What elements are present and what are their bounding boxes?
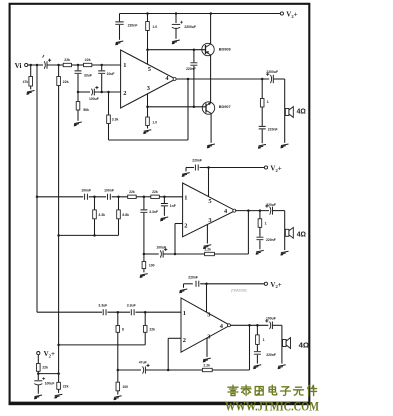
terminal V2+ ch2 — [264, 166, 267, 169]
svg-text:220nF: 220nF — [266, 238, 276, 242]
svg-text:3.3nF: 3.3nF — [149, 210, 158, 214]
ground speaker ch3 — [278, 365, 286, 369]
op-amp U1 TDA2030 — [121, 50, 177, 108]
svg-text:1.0: 1.0 — [152, 120, 157, 124]
resistor 22k bias lower — [57, 382, 61, 389]
junction pin5 ch2 — [207, 166, 210, 169]
junction — [100, 91, 103, 94]
svg-text:3.3k: 3.3k — [112, 118, 119, 122]
svg-text:220nF: 220nF — [128, 24, 138, 28]
wire — [117, 332, 119, 370]
svg-text:BD908: BD908 — [219, 47, 231, 51]
wire to V2+ ch3 — [200, 283, 264, 285]
wire — [261, 79, 263, 99]
svg-text:100uF: 100uF — [156, 245, 166, 249]
svg-text:22k: 22k — [129, 190, 135, 194]
resistor 22k bias top — [57, 77, 61, 86]
resistor 2.2k ch3 — [202, 368, 212, 371]
junction bias divider — [57, 64, 60, 67]
resistor 1 zobel ch1 — [260, 99, 264, 108]
svg-text:1nF: 1nF — [170, 204, 176, 208]
resistor 22k ch2 a — [128, 195, 137, 198]
wire bias rail B — [58, 86, 60, 383]
resistor 3.3k feedback — [107, 115, 111, 124]
wire — [72, 64, 84, 66]
ground 100 ch2 — [140, 274, 148, 278]
wire — [118, 197, 120, 210]
wire pin2 line — [78, 91, 90, 93]
wire pin3 stub — [147, 94, 149, 117]
svg-text:V2+: V2+ — [286, 11, 297, 19]
junction input-rail — [36, 64, 39, 67]
junction bias node — [37, 372, 40, 375]
svg-text:220nF: 220nF — [266, 353, 276, 357]
svg-text:1: 1 — [265, 222, 267, 226]
wire — [193, 66, 195, 107]
wire — [212, 369, 249, 371]
speaker LS2 — [285, 227, 293, 238]
wire — [259, 227, 261, 236]
resistor 1 zobel ch2 — [258, 219, 262, 228]
wire base BD908 — [148, 49, 206, 51]
svg-text:4Ω: 4Ω — [297, 231, 307, 238]
resistor R 22k series 2 — [84, 63, 92, 66]
junction — [117, 369, 120, 372]
ground rail cap ch3 — [179, 289, 187, 293]
wire — [274, 78, 285, 80]
wire pin2 stub ch3 — [168, 337, 181, 339]
ground pin3 — [143, 130, 151, 134]
wire — [143, 254, 145, 262]
wire ch3 input — [37, 311, 102, 313]
capacitor 220nF rail ch2 — [195, 165, 198, 171]
svg-text:BD907: BD907 — [219, 105, 231, 109]
wire output ch3 — [230, 324, 268, 326]
capacitor 3.3uF ch3 a — [103, 309, 106, 315]
wire — [117, 370, 119, 382]
junction rail B tap ch2 — [57, 234, 60, 237]
junction zobel ch3 — [256, 324, 259, 327]
wire pin3 stub ch2 — [206, 225, 208, 244]
svg-text:3.3k: 3.3k — [98, 213, 105, 217]
svg-text:4Ω: 4Ω — [297, 109, 307, 116]
wire — [94, 219, 96, 236]
wire to pin1 ch2 — [159, 196, 182, 198]
capacitor 100uF feedback ch2 — [160, 250, 161, 257]
junction pin5 ch3 — [205, 283, 208, 286]
wire — [77, 110, 79, 121]
wire — [259, 240, 261, 249]
input terminal Vi — [25, 63, 28, 66]
capacitor 220nF zobel ch2 — [256, 237, 263, 240]
svg-text:WWW.JTMIC.COM: WWW.JTMIC.COM — [225, 400, 319, 414]
ground speaker ch2 — [281, 251, 289, 255]
capacitor 220nF rail ch3 — [196, 281, 199, 287]
svg-text:1.0: 1.0 — [152, 25, 157, 29]
ground 1nF — [160, 217, 168, 221]
resistor 22k ch2 b — [151, 195, 160, 198]
resistor 8 ch3 — [116, 326, 120, 333]
svg-text:100nF: 100nF — [81, 188, 91, 192]
wire — [119, 25, 121, 40]
svg-text:V2+: V2+ — [44, 350, 55, 358]
wire collector BD908 — [210, 14, 212, 45]
ground 100 ch3 — [114, 396, 122, 400]
svg-text:3: 3 — [147, 85, 150, 92]
svg-text:5: 5 — [207, 311, 210, 318]
svg-text:3.3uF: 3.3uF — [127, 303, 136, 307]
wire — [101, 74, 103, 92]
capacitor 3.3uF ch3 b — [131, 309, 134, 315]
svg-text:2: 2 — [184, 222, 187, 229]
junction — [146, 12, 149, 15]
wire — [261, 107, 263, 126]
wire — [118, 219, 120, 236]
wire — [146, 369, 169, 371]
wire — [256, 344, 258, 351]
tick mark — [43, 55, 44, 58]
junction — [117, 311, 120, 314]
svg-text:(TDA2030): (TDA2030) — [231, 288, 247, 292]
wire — [117, 312, 119, 325]
wire — [77, 92, 79, 102]
svg-text:3: 3 — [207, 334, 210, 341]
junction — [143, 253, 146, 256]
transistor Q1 BD908 — [202, 43, 214, 55]
speaker LS1 — [285, 107, 293, 118]
wire — [163, 197, 165, 203]
wire input — [28, 64, 43, 66]
resistor 3.3k ch2 — [93, 210, 97, 219]
wire — [144, 312, 146, 325]
wire output ch1 — [176, 78, 270, 80]
junction — [93, 234, 96, 237]
capacitor input 10uF electrolytic — [44, 61, 45, 69]
svg-text:2.2k: 2.2k — [203, 363, 210, 367]
wire feedback riser — [187, 79, 189, 140]
resistor 100 ch2 — [142, 262, 146, 269]
wire feedback riser ch2 — [247, 211, 249, 254]
ground pin3 ch3 — [203, 358, 211, 362]
wire — [118, 369, 141, 371]
wire — [101, 65, 103, 70]
wire — [144, 332, 146, 345]
svg-text:220nF: 220nF — [192, 159, 202, 163]
wire to pin1 ch3 — [136, 311, 182, 313]
wire bias line ch3 — [59, 344, 146, 346]
wire base BD907 — [148, 106, 206, 108]
wire — [37, 385, 39, 394]
wire collector BD907 — [210, 113, 212, 142]
capacitor 220nF zobel ch3 — [254, 352, 261, 355]
wire speaker drop ch2 — [284, 211, 286, 250]
junction input-R — [29, 64, 32, 67]
op-amp U3 TDA2030 — [181, 298, 231, 352]
capacitor 220uF output ch2 — [270, 207, 271, 215]
svg-text:56k: 56k — [83, 108, 89, 112]
resistor 1.0 supply — [146, 22, 150, 31]
wire — [107, 311, 130, 313]
junction rail B bias — [57, 372, 60, 375]
junction base bottom — [193, 106, 196, 109]
svg-text:2: 2 — [183, 337, 186, 344]
ground zobel ch3 — [253, 365, 261, 369]
wire — [147, 126, 149, 129]
wire to V2+ ch2 — [200, 167, 265, 169]
wire — [94, 197, 96, 210]
junction — [143, 196, 146, 199]
svg-text:5: 5 — [208, 198, 211, 205]
wire — [47, 64, 63, 66]
svg-text:22k: 22k — [63, 80, 69, 84]
svg-text:3: 3 — [208, 217, 211, 224]
wire ch2 input — [37, 196, 83, 198]
ground supply cap — [115, 41, 123, 45]
junction — [117, 196, 120, 199]
svg-text:1: 1 — [184, 195, 187, 202]
junction rail B tap ch3 — [57, 344, 60, 347]
wire pin2 riser ch2 — [174, 224, 176, 255]
junction rail A tap ch2 — [36, 196, 39, 199]
wire — [175, 29, 177, 39]
terminal V2+ ch1 — [280, 12, 283, 15]
wire pin5 riser ch2 — [208, 168, 210, 197]
wire feedback bottom — [109, 139, 189, 141]
svg-text:2: 2 — [123, 90, 126, 97]
svg-text:100uF: 100uF — [266, 317, 276, 321]
capacitor 220nF base-base — [190, 63, 197, 65]
junction — [163, 196, 166, 199]
capacitor 100uF electrolytic — [92, 89, 93, 96]
wire — [163, 253, 204, 255]
wire — [184, 283, 193, 285]
svg-text:5: 5 — [148, 66, 151, 73]
junction feedback — [187, 78, 190, 81]
ground bias lower — [54, 394, 62, 398]
svg-text:2200uF: 2200uF — [184, 25, 196, 29]
junction rail — [210, 12, 213, 15]
wire — [143, 213, 145, 254]
wire — [77, 74, 79, 92]
wire pin3 stub ch3 — [206, 338, 208, 357]
capacitor 100nF ch2 a — [85, 194, 88, 200]
ground BD907 — [207, 144, 215, 148]
junction — [248, 324, 251, 327]
wire — [37, 371, 39, 380]
svg-text:6.8k: 6.8k — [122, 213, 129, 217]
svg-text:4: 4 — [224, 208, 228, 215]
wire — [175, 14, 177, 24]
transistor Q2 BD907 — [202, 102, 214, 114]
wire — [143, 269, 145, 273]
watermark chinese text — [228, 385, 317, 395]
junction — [174, 253, 177, 256]
junction zobel — [261, 78, 264, 81]
svg-text:1: 1 — [183, 310, 186, 317]
wire — [119, 14, 121, 22]
wire — [214, 253, 248, 255]
resistor 56k — [76, 102, 80, 111]
wire to V2+ terminal — [211, 13, 280, 15]
junction — [144, 311, 147, 314]
wire speaker drop — [284, 79, 286, 143]
wire — [136, 196, 151, 198]
ground zobel ch1 — [258, 144, 266, 148]
ground zobel ch2 — [256, 250, 264, 254]
capacitor 2200uF output — [271, 75, 272, 83]
junction — [77, 91, 80, 94]
svg-text:2200uF: 2200uF — [266, 70, 278, 74]
wire — [143, 197, 145, 210]
svg-text:4Ω: 4Ω — [299, 340, 310, 349]
junction pin3 node — [146, 106, 149, 109]
capacitor 3.3nF ch2 — [140, 210, 147, 212]
wire — [193, 50, 195, 63]
terminal V2+ ch3 — [264, 282, 267, 285]
resistor 22k ch3 — [143, 326, 147, 333]
wire ch2 return line — [59, 234, 119, 236]
wire pin5 riser — [147, 31, 149, 65]
op-amp U2 TDA2030 — [183, 183, 236, 237]
svg-text:1: 1 — [123, 62, 126, 69]
schematic border frame — [10, 4, 310, 403]
svg-text:V2+: V2+ — [270, 165, 281, 173]
wire — [112, 196, 128, 198]
svg-text:1: 1 — [263, 338, 265, 342]
capacitor 220nF zobel ch1 — [259, 126, 266, 128]
junction node A — [77, 64, 80, 67]
svg-text:220uF: 220uF — [266, 203, 276, 207]
junction — [167, 369, 170, 372]
capacitor 220nF supply — [115, 22, 123, 24]
wire speaker drop ch3 — [281, 325, 283, 363]
svg-text:22k: 22k — [63, 384, 69, 388]
wire emitters — [210, 55, 212, 103]
capacitor 33uF — [75, 71, 82, 73]
capacitor 100nF ch2 b — [108, 194, 111, 200]
svg-text:4: 4 — [165, 75, 169, 82]
wire — [183, 284, 185, 288]
capacitor 2200uF electrolytic — [172, 23, 180, 25]
wire — [273, 324, 282, 326]
wire — [30, 65, 32, 77]
capacitor 100uF bias — [34, 380, 42, 382]
frame bottom thick edge — [9, 402, 311, 405]
svg-text:3.3uF: 3.3uF — [98, 303, 107, 307]
wire pin5 riser ch3 — [206, 284, 208, 312]
wire — [147, 14, 149, 22]
wire — [259, 211, 261, 219]
wire — [58, 389, 60, 393]
capacitor 100uF output ch3 — [270, 322, 271, 330]
wire to pin1 — [92, 64, 121, 66]
ground pin3 ch2 — [203, 245, 211, 249]
svg-text:47uF: 47uF — [139, 360, 147, 364]
svg-text:22k: 22k — [85, 58, 91, 62]
ground 2200uF — [172, 40, 180, 44]
svg-text:1: 1 — [267, 100, 269, 104]
resistor R 22k series 1 — [63, 63, 71, 66]
wire V+ rail — [120, 13, 211, 15]
wire — [77, 65, 79, 70]
junction zobel ch2 — [259, 209, 262, 212]
wire output ch2 — [235, 210, 269, 212]
resistor 22k bias upper — [37, 364, 41, 372]
capacitor 47uF ch3 — [143, 366, 144, 373]
svg-text:10uF: 10uF — [107, 72, 115, 76]
wire pin2 stub ch2 — [175, 223, 183, 225]
ground speaker ch1 — [281, 144, 289, 148]
svg-text:100nF: 100nF — [104, 188, 114, 192]
ground input shunt — [27, 91, 35, 95]
wire — [256, 325, 258, 335]
wire — [108, 92, 110, 115]
wire — [273, 210, 285, 212]
wire — [163, 207, 165, 216]
wire — [89, 196, 106, 198]
wire — [117, 391, 119, 395]
svg-text:V2+: V2+ — [270, 281, 281, 289]
svg-text:100uF: 100uF — [89, 97, 99, 101]
wire to pin2 — [95, 91, 121, 93]
svg-text:8: 8 — [122, 327, 124, 331]
wire bias node link — [38, 373, 58, 375]
junction base node top — [146, 48, 149, 51]
ground bias cap — [34, 395, 42, 399]
junction — [175, 12, 178, 15]
wire — [108, 124, 110, 141]
svg-text:33uF: 33uF — [84, 73, 92, 77]
resistor 1.0 pin3 — [146, 117, 150, 126]
svg-text:100: 100 — [149, 264, 155, 268]
svg-text:100uF: 100uF — [45, 381, 55, 385]
svg-text:220nF: 220nF — [268, 127, 278, 131]
wire — [185, 168, 187, 172]
resistor 6.8k ch2 — [117, 210, 121, 219]
ground rail cap ch2 — [182, 173, 190, 177]
junction — [107, 91, 110, 94]
ground 56k — [74, 122, 82, 126]
svg-text:220nF: 220nF — [188, 276, 198, 280]
capacitor 10uF — [98, 71, 105, 73]
svg-text:Vi: Vi — [15, 62, 22, 70]
wire feedback riser ch3 — [249, 325, 251, 370]
wire — [261, 130, 263, 144]
svg-text:100: 100 — [122, 385, 128, 389]
junction — [247, 209, 250, 212]
junction node B — [100, 64, 103, 67]
wire — [30, 86, 32, 89]
wire pin2 riser ch3 — [167, 338, 169, 370]
svg-text:22k: 22k — [152, 190, 158, 194]
resistor 2.2k ch2 — [205, 252, 215, 255]
junction — [93, 196, 96, 199]
resistor 1 zobel ch3 — [256, 335, 260, 345]
wire — [256, 355, 258, 364]
wire feedback ch2 — [144, 253, 159, 255]
resistor 47k input shunt — [29, 77, 33, 87]
capacitor 1nF ch2 — [161, 204, 168, 206]
speaker LS3 — [283, 338, 291, 349]
terminal V2+ bias — [37, 352, 40, 355]
wire — [37, 355, 39, 364]
wire signal rail A — [36, 65, 38, 312]
svg-text:22k: 22k — [149, 327, 155, 331]
svg-text:22k: 22k — [42, 365, 48, 369]
resistor 100 ch3 — [116, 382, 120, 391]
junction base top — [193, 48, 196, 51]
wire — [58, 65, 60, 77]
